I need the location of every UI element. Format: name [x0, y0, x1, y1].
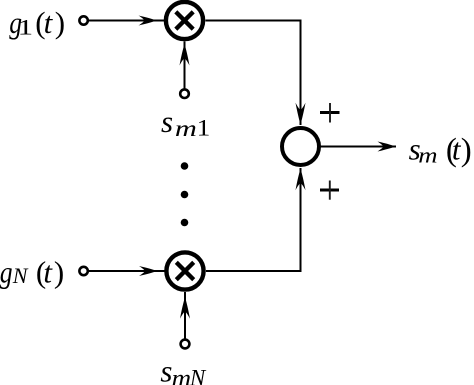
- svg-text:1: 1: [197, 116, 211, 141]
- label s_mN: [160, 354, 207, 385]
- arrowhead on g1 wire: [139, 16, 158, 26]
- label gN(t): [0, 254, 64, 289]
- svg-text:m: m: [175, 116, 197, 141]
- arrowhead on gN wire: [139, 266, 158, 276]
- multiplier M1: [166, 2, 203, 39]
- svg-text:): ): [461, 133, 472, 169]
- arrow s_m1 to M1: [184, 41, 186, 89]
- wire gN to multiplier M2: [89, 270, 165, 272]
- svg-text:m: m: [172, 366, 192, 385]
- svg-text:s: s: [160, 354, 172, 385]
- svg-text:N: N: [12, 263, 29, 288]
- multiplier M2: [166, 252, 203, 289]
- label s_m(t): [409, 132, 472, 169]
- label g1(t): [9, 5, 65, 40]
- input terminal g1: [79, 16, 87, 24]
- arrowhead into summer top: [296, 103, 306, 125]
- terminal s_m1: [180, 89, 189, 98]
- svg-text:s: s: [161, 104, 173, 139]
- wire M2 to summer: [206, 168, 301, 271]
- svg-text:N: N: [189, 366, 207, 385]
- svg-text:1: 1: [18, 15, 33, 40]
- input terminal gN: [79, 267, 87, 275]
- wire M1 to summer: [206, 21, 301, 126]
- svg-text:): ): [55, 5, 65, 40]
- svg-text:g: g: [0, 254, 13, 289]
- svg-text:m: m: [418, 143, 437, 168]
- arrow s_mN to M2: [184, 292, 186, 339]
- output wire: [320, 146, 397, 148]
- plus sign top: [320, 103, 340, 123]
- svg-text:): ): [54, 254, 64, 289]
- arrowhead into summer bottom: [296, 168, 306, 190]
- svg-text:t: t: [44, 5, 54, 40]
- terminal s_mN: [181, 340, 190, 349]
- wire g1 to multiplier M1: [89, 20, 164, 22]
- summer node: [282, 128, 319, 165]
- vertical dots: [181, 162, 189, 170]
- plus sign bottom: [320, 181, 339, 200]
- label s_m1: [161, 104, 210, 141]
- svg-text:t: t: [43, 254, 53, 289]
